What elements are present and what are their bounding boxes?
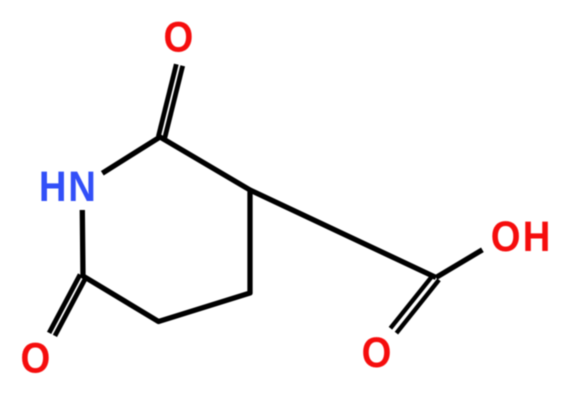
svg-text:H: H — [523, 212, 551, 261]
bond C=O bottom-right double line b — [396, 280, 439, 333]
svg-text:O: O — [21, 334, 51, 383]
wire glutarimide ring N1-C2-C3-C4-C5-C6 — [82, 137, 250, 322]
svg-text:O: O — [362, 328, 392, 377]
bond C=O bottom-right double line a — [390, 275, 433, 328]
bond C2=O top double line a — [165, 66, 183, 139]
bond C2=O top double line b — [158, 64, 176, 137]
svg-text:N: N — [68, 162, 96, 211]
bond C6=O bottom-left double line a — [49, 275, 80, 333]
svg-text:O: O — [164, 13, 194, 62]
bond C3 to carboxyl carbon (stretched chain bond) — [250, 190, 436, 278]
svg-text:O: O — [491, 212, 521, 261]
bond C6=O bottom-left double line b — [55, 278, 86, 336]
svg-text:H: H — [39, 162, 67, 211]
bond carboxyl C-OH single — [436, 250, 482, 278]
